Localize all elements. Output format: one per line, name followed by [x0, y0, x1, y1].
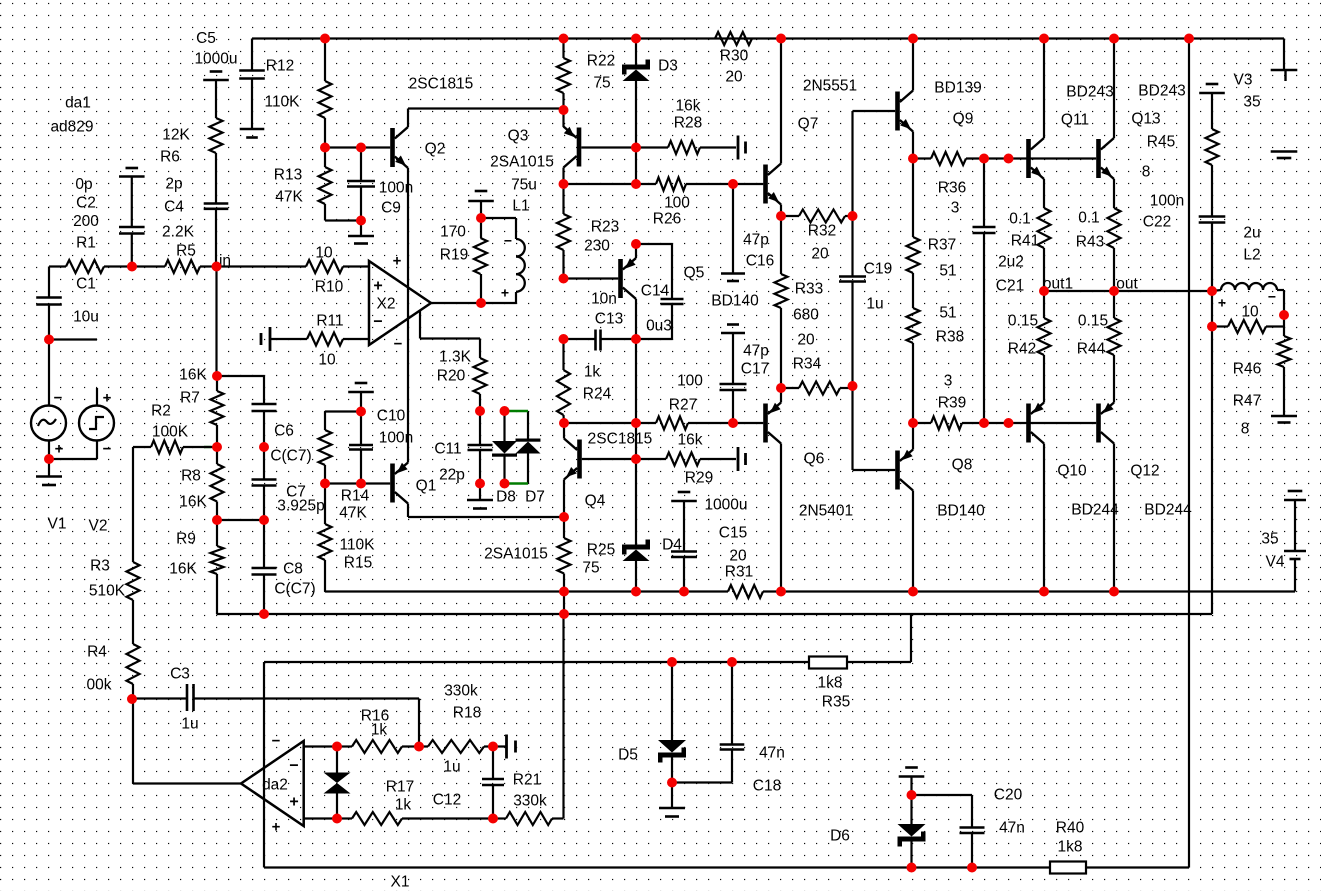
capacitor C4 2p — [164, 175, 228, 266]
svg-text:10n: 10n — [591, 290, 617, 307]
wire Q2 emitter to Q1 — [407, 168, 409, 463]
resistor R33 680 — [775, 216, 824, 388]
svg-text:−: − — [394, 335, 403, 352]
wire Q9 base column — [853, 111, 896, 277]
svg-text:R24: R24 — [583, 385, 612, 402]
svg-text:00k: 00k — [87, 676, 112, 693]
resistor R29 16k — [666, 431, 736, 486]
wire input column — [215, 267, 217, 377]
resistor R11 10 — [270, 312, 369, 368]
svg-text:1k: 1k — [371, 721, 388, 738]
svg-text:2SA1015: 2SA1015 — [490, 153, 554, 170]
svg-text:47K: 47K — [275, 188, 303, 205]
op-amp da1 label — [50, 94, 93, 135]
source V2 (step) — [49, 388, 114, 534]
svg-text:BD140: BD140 — [711, 292, 759, 309]
wire Q1 base — [325, 482, 390, 484]
svg-text:R30: R30 — [720, 47, 749, 64]
svg-text:R38: R38 — [936, 328, 964, 345]
svg-text:BD140: BD140 — [937, 502, 985, 519]
svg-text:100n: 100n — [1150, 192, 1184, 209]
svg-text:0p: 0p — [75, 176, 92, 193]
svg-text:R15: R15 — [344, 554, 372, 571]
transistor Q10 BD244 — [1026, 403, 1119, 519]
svg-text:R31: R31 — [725, 563, 753, 580]
transistor Q7 2N5551 — [763, 77, 857, 204]
svg-text:100: 100 — [677, 372, 703, 389]
wire Q11 collector — [1043, 39, 1045, 139]
svg-text:47p: 47p — [743, 231, 769, 248]
resistor R5 2.2K — [162, 223, 306, 273]
resistor R46 10 — [1212, 303, 1284, 377]
svg-text:+: + — [501, 284, 509, 300]
svg-text:20: 20 — [725, 68, 743, 85]
resistor R1 200 — [49, 176, 165, 273]
svg-text:75u: 75u — [511, 176, 537, 193]
svg-text:R27: R27 — [669, 396, 697, 413]
svg-text:2N5551: 2N5551 — [803, 77, 857, 94]
resistor R18 330k — [428, 682, 506, 753]
svg-text:R11: R11 — [316, 312, 343, 329]
svg-text:BD243: BD243 — [1138, 82, 1185, 99]
svg-text:Q11: Q11 — [1061, 111, 1089, 128]
ground (below R47) — [1271, 416, 1297, 423]
svg-text:3: 3 — [944, 372, 953, 389]
svg-text:1k8: 1k8 — [818, 674, 843, 691]
capacitor C17 47p — [720, 325, 770, 424]
resistor R37 51 — [907, 159, 957, 280]
diode D3 — [622, 39, 678, 185]
svg-text:3.925p: 3.925p — [277, 497, 324, 514]
subcircuit X1 label — [391, 873, 410, 890]
svg-text:R35: R35 — [822, 693, 850, 710]
svg-text:1u: 1u — [181, 715, 198, 732]
wire X1 box — [264, 39, 1189, 868]
svg-text:ad829: ad829 — [50, 118, 93, 135]
svg-text:X2: X2 — [377, 295, 396, 312]
svg-text:47K: 47K — [339, 504, 367, 521]
capacitor C8 — [252, 520, 316, 614]
capacitor C3 1u — [133, 665, 419, 746]
svg-text:C2: C2 — [76, 194, 96, 211]
svg-text:16k: 16k — [678, 431, 703, 448]
wire Q5 emitter/collector column — [635, 244, 637, 459]
transistor Q3 labels — [490, 127, 554, 170]
wire (green net at D7/D8) — [204, 411, 528, 484]
svg-text:20: 20 — [729, 547, 747, 564]
wire Q5 base row / R26 — [564, 277, 619, 279]
svg-text:R6: R6 — [160, 148, 180, 165]
resistor R45 8 — [1142, 93, 1219, 217]
tie terminal (supply tap above R6) — [203, 72, 229, 81]
svg-text:1k: 1k — [395, 796, 412, 813]
svg-text:100K: 100K — [152, 423, 189, 440]
resistor R31 20 — [725, 547, 763, 598]
svg-text:out: out — [1116, 275, 1138, 292]
capacitor C6 — [217, 376, 312, 464]
capacitor C19 1u — [839, 260, 892, 386]
svg-text:Q1: Q1 — [416, 477, 437, 494]
resistor R7 16K — [179, 366, 223, 447]
resistor R41 0.1 — [1009, 179, 1050, 291]
wire feedback to da2 — [133, 699, 241, 784]
capacitor C14 0u3 — [636, 244, 684, 339]
tie terminal (right of R29) — [738, 447, 746, 471]
svg-text:10: 10 — [315, 244, 333, 261]
svg-text:0.15: 0.15 — [1008, 312, 1038, 329]
svg-text:170: 170 — [440, 223, 466, 240]
resistor R38 51 — [907, 273, 965, 423]
resistor R22 75 — [557, 39, 615, 128]
resistor R19 170 — [440, 201, 487, 303]
svg-text:C6: C6 — [274, 422, 294, 439]
svg-text:C5: C5 — [196, 30, 216, 47]
resistor R36 3 — [913, 152, 1096, 216]
resistor R25 75 — [484, 538, 615, 614]
transistor Q13 BD243 — [1096, 82, 1186, 179]
svg-text:da2: da2 — [262, 776, 288, 793]
svg-text:C19: C19 — [864, 260, 892, 277]
svg-text:R33: R33 — [795, 280, 823, 297]
svg-text:680: 680 — [793, 306, 819, 323]
svg-text:C20: C20 — [994, 786, 1023, 803]
resistor R23 230 — [557, 184, 619, 279]
capacitor C1 10u — [36, 267, 99, 340]
capacitor C11 22p — [434, 411, 492, 484]
svg-text:R45: R45 — [1147, 133, 1175, 150]
svg-text:R43: R43 — [1076, 233, 1104, 250]
resistor R30 20 — [715, 32, 752, 85]
svg-text:0u3: 0u3 — [646, 317, 672, 334]
wire Q1 collector to R25 node — [408, 504, 564, 518]
node in — [219, 252, 231, 269]
capacitor C9 100n — [347, 148, 413, 221]
transistor Q6 2N5401 — [763, 403, 853, 520]
svg-text:12K: 12K — [162, 126, 190, 143]
svg-text:C(C7): C(C7) — [270, 447, 311, 464]
resistor R39 3 — [913, 372, 1096, 429]
ground (below C11) — [467, 484, 493, 509]
svg-text:100n: 100n — [379, 429, 413, 446]
capacitor C7 3.925p — [217, 447, 325, 520]
svg-text:R13: R13 — [274, 166, 302, 183]
wire Q8 base — [853, 386, 896, 470]
svg-text:R5: R5 — [176, 242, 196, 259]
svg-text:C3: C3 — [170, 665, 190, 682]
svg-text:47p: 47p — [743, 342, 769, 359]
svg-text:16k: 16k — [676, 97, 701, 114]
capacitor C16 47p — [721, 184, 774, 281]
svg-text:V1: V1 — [48, 515, 67, 532]
wire Q7 collector to bus — [780, 39, 782, 164]
svg-text:1k8: 1k8 — [1058, 838, 1083, 855]
svg-text:330k: 330k — [444, 682, 478, 699]
svg-text:D3: D3 — [658, 57, 678, 74]
node out1 — [1043, 275, 1073, 292]
svg-text:R46: R46 — [1233, 360, 1261, 377]
resistor R17 1k — [337, 778, 493, 825]
svg-text:C9: C9 — [381, 199, 401, 216]
svg-text:C13: C13 — [595, 310, 623, 327]
resistor R10 10 — [306, 244, 369, 295]
svg-text:R9: R9 — [176, 530, 196, 547]
svg-text:+: + — [373, 277, 382, 294]
svg-text:Q9: Q9 — [953, 110, 974, 127]
svg-text:da1: da1 — [65, 94, 91, 111]
svg-text:C18: C18 — [753, 777, 781, 794]
svg-text:R12: R12 — [266, 57, 294, 74]
svg-text:R41: R41 — [1011, 232, 1039, 249]
transistor Q1 2SA1015 — [390, 463, 436, 504]
transistor Q5 BD140 — [618, 258, 759, 309]
source V1 (sine) — [31, 340, 66, 533]
wire -V bus (lower rail) — [325, 590, 1295, 592]
svg-text:Q8: Q8 — [952, 456, 973, 473]
svg-text:R39: R39 — [938, 394, 966, 411]
transistor Q9 BD139 — [895, 79, 982, 131]
zener D4 — [622, 459, 682, 592]
svg-text:R17: R17 — [386, 778, 414, 795]
ground (below V1) — [36, 459, 62, 485]
diode D7 — [516, 411, 545, 505]
wire X2 output — [431, 292, 516, 303]
svg-text:BD139: BD139 — [934, 79, 981, 96]
svg-text:75: 75 — [582, 559, 599, 576]
svg-text:C10: C10 — [377, 407, 406, 424]
svg-text:+: + — [1218, 294, 1226, 310]
svg-text:1000u: 1000u — [704, 496, 747, 513]
svg-text:C22: C22 — [1143, 213, 1171, 230]
zener D5 — [618, 662, 686, 783]
resistor R44 0.15 — [1077, 291, 1121, 403]
inductor L1 75u — [481, 176, 537, 300]
svg-text:C11: C11 — [434, 440, 461, 457]
capacitor C21 2u2 — [973, 159, 1025, 424]
resistor R26 100 — [636, 178, 763, 228]
battery V3 35 — [1234, 70, 1298, 158]
svg-text:Q13: Q13 — [1131, 110, 1160, 127]
svg-text:BD244: BD244 — [1071, 501, 1119, 518]
transistor Q12 BD244 — [1096, 403, 1192, 519]
svg-text:R37: R37 — [928, 236, 956, 253]
svg-text:R42: R42 — [1008, 340, 1036, 357]
svg-text:47n: 47n — [999, 819, 1025, 836]
svg-text:2u: 2u — [1243, 224, 1260, 241]
svg-text:C12: C12 — [433, 791, 461, 808]
svg-text:D6: D6 — [830, 827, 850, 844]
resistor R20 1.3K — [437, 348, 487, 411]
diode D8 — [492, 411, 517, 505]
wire C10 to R14 — [325, 412, 361, 431]
svg-text:2SC1815: 2SC1815 — [588, 430, 653, 447]
svg-text:Q2: Q2 — [425, 140, 446, 157]
op-amp da2 — [241, 732, 304, 835]
svg-text:200: 200 — [73, 213, 99, 230]
svg-text:+: + — [55, 440, 64, 457]
svg-text:R14: R14 — [341, 487, 370, 504]
wire second lower bus — [217, 613, 1213, 615]
battery V4 35 — [1261, 491, 1306, 592]
svg-text:R3: R3 — [90, 557, 110, 574]
capacitor C13 10n — [564, 290, 637, 350]
svg-text:1.3K: 1.3K — [439, 348, 472, 365]
wire Q2 base node — [325, 146, 390, 148]
resistor R32 20 — [781, 210, 853, 263]
ground (below D5) — [659, 783, 685, 817]
svg-text:2SA1015: 2SA1015 — [484, 545, 548, 562]
svg-text:0.15: 0.15 — [1078, 312, 1108, 329]
svg-text:16K: 16K — [179, 366, 207, 383]
svg-text:20: 20 — [811, 245, 829, 262]
svg-text:2N5401: 2N5401 — [799, 502, 853, 519]
svg-text:0.1: 0.1 — [1009, 210, 1031, 227]
svg-text:10: 10 — [1241, 303, 1259, 320]
wire top +V bus — [252, 39, 1284, 71]
svg-text:100n: 100n — [379, 179, 413, 196]
svg-text:R20: R20 — [437, 367, 466, 384]
svg-text:−: − — [373, 313, 382, 330]
capacitor C18 47n — [672, 662, 785, 794]
svg-text:R18: R18 — [453, 704, 481, 721]
svg-text:R1: R1 — [76, 234, 96, 251]
zener pair (bowtie) at da2 input — [324, 747, 351, 819]
svg-text:Q5: Q5 — [684, 264, 705, 281]
svg-text:R28: R28 — [674, 114, 702, 131]
svg-text:Q4: Q4 — [585, 492, 606, 509]
resistor R4 100k — [87, 643, 140, 699]
resistor R34 20 — [781, 331, 853, 394]
svg-text:L2: L2 — [1243, 246, 1260, 263]
svg-text:47n: 47n — [759, 744, 785, 761]
svg-text:X1: X1 — [391, 873, 410, 890]
node out — [1116, 275, 1138, 292]
svg-text:C(C7): C(C7) — [274, 580, 315, 597]
resistor R15 110K — [319, 484, 376, 592]
svg-text:R4: R4 — [87, 643, 107, 660]
svg-text:230: 230 — [584, 237, 610, 254]
svg-text:35: 35 — [1243, 93, 1260, 110]
tie terminal (left of R11) — [261, 327, 270, 351]
resistor R16 1k — [337, 707, 428, 753]
resistor R14 47K — [319, 430, 370, 521]
svg-text:+: + — [289, 793, 298, 810]
wire Q2 collector — [408, 109, 564, 128]
wire Q4 collector — [563, 423, 565, 439]
resistor R42 0.15 — [1008, 291, 1051, 403]
svg-text:1000u: 1000u — [194, 50, 237, 67]
svg-text:+: + — [393, 252, 402, 269]
svg-text:1u: 1u — [443, 758, 460, 775]
svg-text:R2: R2 — [151, 402, 171, 419]
svg-text:C14: C14 — [641, 282, 670, 299]
svg-text:3: 3 — [951, 199, 960, 216]
svg-text:C17: C17 — [741, 360, 769, 377]
resistor R40 1k8 (box) — [1050, 819, 1086, 873]
svg-text:1k: 1k — [584, 363, 601, 380]
wire out row — [1044, 290, 1212, 292]
svg-text:R44: R44 — [1077, 340, 1106, 357]
svg-text:510K: 510K — [89, 582, 126, 599]
svg-text:2u2: 2u2 — [998, 253, 1024, 270]
wire Q4 base row — [582, 458, 666, 460]
svg-text:L1: L1 — [512, 197, 529, 214]
capacitor C10 100n (tie + plates) — [348, 383, 413, 484]
svg-text:110K: 110K — [339, 536, 375, 553]
svg-text:C4: C4 — [164, 198, 184, 215]
wire base row y=423 — [564, 422, 656, 424]
resistor R24 1k — [557, 339, 612, 423]
resistor R8 16K — [179, 447, 223, 520]
resistor R47 8 — [1233, 336, 1291, 437]
resistor R35 1k8 (box) — [809, 657, 850, 711]
svg-text:+: + — [103, 389, 112, 406]
svg-text:BD244: BD244 — [1144, 501, 1192, 518]
capacitor C20 47n — [912, 786, 1025, 867]
transistor Q2 2SC1815 — [390, 75, 473, 168]
svg-text:35: 35 — [1261, 530, 1278, 547]
resistor R2 100K — [133, 402, 217, 453]
svg-text:2SC1815: 2SC1815 — [409, 75, 474, 92]
tie terminal (right of R28) — [738, 136, 746, 160]
wire X2 to R20 tap — [420, 311, 480, 358]
svg-text:51: 51 — [939, 262, 956, 279]
tie terminal (above R45) — [1199, 84, 1225, 93]
svg-text:0.1: 0.1 — [1078, 209, 1100, 226]
svg-text:R8: R8 — [181, 467, 201, 484]
tie terminal (above R19) — [468, 191, 494, 201]
capacitor C22 100n — [1143, 192, 1226, 291]
svg-text:V3: V3 — [1234, 71, 1253, 88]
wire Q13 collector — [1113, 39, 1115, 139]
svg-text:22p: 22p — [439, 466, 465, 483]
svg-text:75: 75 — [593, 74, 610, 91]
svg-text:BD243: BD243 — [1066, 83, 1113, 100]
svg-text:8: 8 — [1142, 163, 1151, 180]
svg-text:16K: 16K — [169, 560, 197, 577]
svg-text:20: 20 — [797, 331, 815, 348]
wire stub at V1 top — [49, 338, 97, 340]
transistor Q4 2SC1815 — [564, 430, 652, 509]
wire Q10 collector — [1043, 444, 1045, 592]
svg-text:Q3: Q3 — [508, 127, 529, 144]
resistor R3 510K — [89, 447, 140, 644]
svg-text:R40: R40 — [1056, 819, 1085, 836]
wire Q6 emitter/collector — [780, 388, 782, 592]
resistor R13 47K — [274, 148, 361, 221]
wire out column down to lower bus — [1211, 291, 1213, 614]
svg-text:R10: R10 — [315, 278, 344, 295]
resistor R12 110K — [264, 39, 331, 148]
svg-text:−: − — [103, 440, 112, 457]
svg-text:330k: 330k — [513, 792, 547, 809]
svg-text:R47: R47 — [1233, 392, 1261, 409]
transistor Q11 BD243 — [1026, 83, 1114, 179]
svg-text:−: − — [54, 389, 63, 406]
svg-text:16K: 16K — [179, 493, 207, 510]
svg-text:Q10: Q10 — [1057, 462, 1087, 479]
svg-text:R26: R26 — [653, 210, 681, 227]
tie terminal (above D6) — [899, 768, 925, 796]
svg-text:D5: D5 — [618, 746, 638, 763]
svg-text:R19: R19 — [440, 246, 468, 263]
svg-text:R23: R23 — [591, 218, 619, 235]
resistor R6 12K — [160, 80, 222, 203]
svg-text:−: − — [504, 232, 512, 248]
svg-text:+: + — [272, 818, 281, 835]
wire da2 inputs — [304, 747, 337, 819]
transistor Q3 2SA1015 — [564, 127, 582, 168]
svg-text:R7: R7 — [180, 389, 200, 406]
